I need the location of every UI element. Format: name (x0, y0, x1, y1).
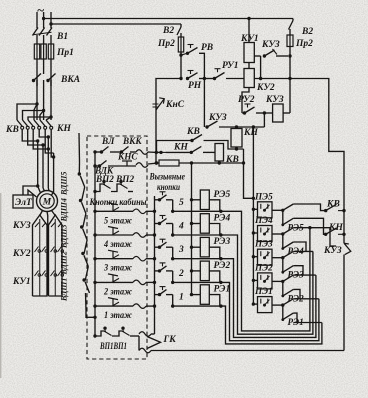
cabin button 3 этаж (108, 250, 118, 252)
wire floor 2 line (93, 281, 96, 284)
door switch ВДШ4 (79, 199, 82, 202)
svg-text:ПЭ2: ПЭ2 (254, 262, 273, 272)
contact RV with delay (181, 53, 187, 55)
svg-text:КН: КН (173, 143, 188, 153)
contact РЭ1 lower (282, 305, 284, 320)
wire bracket L2 to KV2 (42, 109, 45, 112)
wire VDK row (93, 164, 96, 167)
wire row5 upper to KV contact (293, 204, 325, 211)
svg-text:ВКА: ВКА (60, 75, 80, 85)
wires B1 to fuses (36, 35, 38, 44)
svg-text:КУЗ: КУЗ (261, 40, 280, 50)
svg-text:КВ: КВ (326, 200, 340, 210)
fuse Pr1 (three) (34, 44, 39, 59)
cabin button 1 этаж (108, 298, 118, 300)
wire chain connector (83, 214, 86, 228)
svg-text:РВ: РВ (201, 43, 213, 53)
svg-text:1 этаж: 1 этаж (104, 310, 132, 320)
svg-text:РЭ4: РЭ4 (214, 214, 231, 224)
wire floor 4 line (93, 233, 96, 236)
svg-text:ВП2 ВП2: ВП2 ВП2 (95, 174, 134, 184)
svg-text:ВП1ВП1: ВП1ВП1 (99, 341, 127, 351)
flexible cable GK symbol (147, 337, 161, 349)
rotor resistor block (33, 215, 48, 296)
svg-text:КНС: КНС (117, 152, 138, 162)
wire floor 5 line (93, 210, 96, 213)
wire chain connector (85, 267, 88, 281)
phase lines to VKA (36, 59, 38, 86)
svg-text:РУ1: РУ1 (222, 61, 239, 71)
coil KU1 (248, 19, 250, 43)
svg-text:РЭ2: РЭ2 (214, 261, 231, 271)
svg-text:1: 1 (179, 293, 184, 303)
wires lower rows to bundle (293, 250, 313, 252)
svg-text:ВКК: ВКК (122, 136, 142, 146)
svg-text:ГК: ГК (163, 335, 177, 345)
svg-text:Кнопки кабины: Кнопки кабины (89, 197, 147, 207)
cabin button 5 этаж (108, 203, 118, 205)
wire ElT to motor (28, 190, 37, 197)
switch B1 three poles (33, 28, 39, 36)
svg-text:ВДШ2: ВДШ2 (60, 251, 69, 275)
contact РЭ4 lower (282, 234, 284, 249)
wire KV coil bottom (218, 161, 220, 163)
contact upper floor 5 (283, 204, 294, 210)
wire KU2 to feeder (254, 78, 290, 80)
svg-text:В2: В2 (301, 27, 313, 37)
call button floor 1 (155, 294, 160, 296)
flexible wire crossing (133, 304, 146, 309)
resistor in relay feed (155, 161, 158, 164)
flexible wire bottom rail out (139, 348, 151, 353)
wire selector output (272, 209, 283, 211)
wire KnS down to KV/KN node (155, 110, 157, 163)
cabin bus vertical (94, 152, 96, 336)
wire bottom rail (151, 350, 344, 352)
svg-text:РЭ5: РЭ5 (214, 190, 231, 200)
svg-text:РУ2: РУ2 (238, 95, 255, 105)
wire chain bottom to cabin bus (86, 293, 96, 317)
wire to relay RE (173, 234, 221, 236)
node on L2 (42, 17, 45, 20)
svg-text:ВДШ3: ВДШ3 (60, 225, 69, 249)
svg-text:КВ: КВ (186, 127, 200, 137)
svg-text:5 этаж: 5 этаж (104, 215, 132, 225)
wire to relay RE (173, 305, 221, 307)
wire chain connector (82, 187, 85, 201)
floor selector ПЭ4 (258, 226, 273, 242)
wire to RV node (180, 52, 182, 79)
contact РЭ5 lower (282, 210, 284, 225)
svg-text:ЭлТ: ЭлТ (15, 198, 33, 208)
wire to relay RE (173, 210, 221, 212)
wire branch feeder right (290, 79, 344, 244)
svg-text:КУЗ: КУЗ (265, 95, 284, 105)
door switch ВДШ3 (80, 225, 83, 228)
stop button KnS (155, 97, 157, 110)
flexible wire VP1 row out (139, 332, 151, 337)
fuse Pr2 right (287, 35, 293, 47)
wire ElT to bundle (23, 186, 38, 195)
svg-text:4: 4 (178, 222, 184, 232)
wire to stop button (156, 79, 181, 98)
wire KN coil bottom down (244, 149, 254, 198)
relay coil РЭ4 (200, 214, 209, 234)
wire right feeder (289, 47, 291, 57)
svg-text:В1: В1 (56, 32, 68, 42)
switch B2 left (180, 24, 182, 27)
cabin button 2 этаж (108, 274, 118, 276)
coil KN (231, 129, 242, 148)
coil KV (215, 144, 224, 162)
contact VKA poles (32, 79, 35, 82)
motor feed wires (37, 141, 39, 186)
selector bus vertical (252, 127, 254, 304)
contact РЭ3 lower (282, 258, 284, 273)
svg-text:КУ2: КУ2 (12, 249, 31, 259)
thermal element ElT box (13, 195, 33, 208)
flexible wire crossing (133, 280, 146, 285)
svg-text:Пр2: Пр2 (157, 39, 175, 49)
contact RU2 (242, 88, 249, 114)
svg-text:кнопки: кнопки (157, 182, 180, 192)
door switch ВДШ1 (82, 278, 85, 281)
wire VL-VKK row (93, 150, 96, 153)
floor selector ПЭ2 (258, 273, 273, 289)
svg-text:ПЭ3: ПЭ3 (254, 239, 273, 249)
svg-text:3 этаж: 3 этаж (103, 263, 132, 273)
wire floor 1 line (93, 304, 96, 307)
interlock VP2 VP2 brackets (95, 184, 105, 192)
wire selector to bus (252, 302, 255, 305)
relay coil РЭ2 (200, 261, 209, 281)
contact upper floor 3 (283, 251, 294, 257)
wire selector output (272, 280, 283, 282)
svg-text:КУЗ: КУЗ (12, 221, 31, 231)
svg-text:2: 2 (178, 269, 184, 279)
wires motor to rotor resistor (40, 211, 43, 216)
svg-text:КН: КН (56, 124, 71, 134)
svg-text:Вызывные: Вызывные (149, 172, 185, 182)
wire RU2 node down (263, 113, 265, 127)
contact РЭ2 lower (282, 281, 284, 296)
wire second bus y24 to B2 left (51, 23, 181, 25)
coil KU2 (244, 69, 254, 88)
switch B2 right (292, 19, 294, 21)
contact RU1 (204, 78, 214, 80)
contactor KN main contacts (34, 120, 39, 126)
flexible wire out VDK row (136, 163, 148, 168)
relay coil РЭ5 (200, 190, 209, 210)
wire door chain top lead (78, 133, 81, 174)
wire drop to bottom rail (138, 336, 140, 351)
wire selector output (272, 304, 283, 306)
node on L3 (49, 22, 52, 25)
relay coil РЭ3 (200, 237, 209, 257)
wire bundle floor loops (221, 211, 310, 331)
svg-text:Пр2: Пр2 (295, 39, 313, 49)
wire selector output (272, 257, 283, 259)
svg-text:РЭ3: РЭ3 (214, 237, 231, 247)
wire floor 3 line (93, 257, 96, 260)
svg-text:ВДШ4: ВДШ4 (60, 198, 69, 222)
svg-text:ПЭ1: ПЭ1 (254, 286, 273, 296)
cabin enclosure dashed box (87, 136, 147, 359)
wire bracket L1 to KV1 (35, 102, 38, 105)
contactor KV main contacts (17, 120, 22, 126)
svg-text:КУЗ: КУЗ (208, 113, 227, 123)
relay coil РЭ1 (200, 285, 209, 305)
svg-text:2 этаж: 2 этаж (103, 286, 132, 296)
wire selector output (272, 233, 283, 235)
svg-text:КВ: КВ (5, 125, 19, 135)
wire resistor feed vertical (191, 163, 193, 296)
flexible wire crossing (133, 256, 146, 261)
page edge artifact (0, 193, 2, 378)
wire selector to bus (252, 255, 255, 258)
cabin button 4 этаж (108, 227, 118, 229)
wire selector to bus (252, 231, 255, 234)
contacts KU3 in rotor circuit (35, 223, 39, 228)
fuse Pr2 left (178, 37, 183, 52)
switch VDK (98, 164, 101, 167)
call button floor 4 (155, 223, 160, 225)
svg-text:3: 3 (178, 245, 184, 255)
call buttons common bus (154, 196, 156, 334)
floor selector ПЭ3 (258, 249, 273, 265)
contact KU3 lower left (205, 125, 208, 128)
contact upper floor 2 (283, 275, 294, 281)
call button floor 5 (155, 199, 160, 201)
contact upper floor 1 (283, 299, 294, 305)
svg-text:Пр1: Пр1 (56, 48, 74, 58)
svg-text:КнС: КнС (165, 100, 185, 110)
svg-text:М: М (42, 198, 52, 208)
phase lines to reverser (36, 86, 38, 120)
wire selector to bus (252, 208, 255, 211)
svg-text:ВДШ1: ВДШ1 (60, 278, 69, 302)
wires below reverser crossover (22, 130, 38, 142)
call button floor 2 (155, 270, 160, 272)
contacts KU1 in rotor circuit (35, 271, 39, 277)
contact KU3 NC top (254, 55, 260, 57)
wire to relay RE (173, 281, 221, 283)
motor M (37, 191, 58, 212)
wire chain connector (84, 240, 87, 254)
wire row5 lower to KN contact (293, 218, 325, 234)
flexible wire crossing (133, 233, 146, 238)
coil KU3 (273, 104, 284, 122)
svg-text:ПЭ4: ПЭ4 (254, 215, 273, 225)
contacts KU2 in rotor circuit (35, 247, 39, 253)
node RN (179, 77, 182, 80)
door switch ВДШ5 (78, 172, 81, 175)
svg-text:В2: В2 (162, 26, 174, 36)
contact upper floor 4 (283, 228, 294, 234)
phase lines L1 L2 L3 top (36, 12, 38, 28)
svg-text:КН: КН (243, 128, 258, 138)
switch VL (100, 150, 103, 153)
svg-text:КУЗ: КУЗ (323, 246, 342, 256)
interlock VP1 VP1 brackets (95, 331, 106, 336)
switch VKK (120, 150, 123, 153)
svg-text:РЭ1: РЭ1 (214, 285, 231, 295)
svg-text:ПЭ5: ПЭ5 (254, 191, 273, 201)
svg-text:КУ2: КУ2 (256, 83, 275, 93)
wire row4 upper to KUZ (293, 228, 336, 246)
floor selector ПЭ5 (258, 202, 273, 218)
svg-text:КУ1: КУ1 (240, 34, 259, 44)
svg-text:РН: РН (188, 81, 202, 91)
flexible wire crossing (133, 209, 146, 214)
svg-text:4 этаж: 4 этаж (103, 239, 132, 249)
door switch ВДШ2 (81, 252, 84, 255)
svg-text:КУ1: КУ1 (12, 277, 31, 287)
wire to relay RE (173, 258, 221, 260)
svg-text:ВДШ5: ВДШ5 (60, 172, 69, 196)
wire jogs to KN side (34, 104, 37, 120)
floor selector ПЭ1 (258, 297, 273, 313)
svg-text:ВЛ: ВЛ (101, 136, 115, 146)
call button floor 3 (155, 246, 160, 248)
contact RN with delay (186, 77, 189, 80)
wire selector to bus (252, 279, 255, 282)
flexible wire out VL row (136, 150, 148, 155)
wire top bus y18 to B2 right (44, 18, 293, 20)
svg-text:5: 5 (179, 198, 184, 208)
wire bracket L3 to KV3 (49, 115, 52, 118)
